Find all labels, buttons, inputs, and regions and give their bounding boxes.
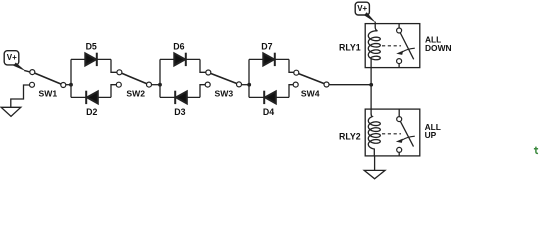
node junction at x=371.2 [369,83,373,87]
wire SW4 common to node [329,84,371,86]
wire RLY1 coil to RLY2 coil [370,68,372,115]
SW2 contacts [117,70,122,75]
wire SW2 common to node [152,84,161,86]
svg-text:V+: V+ [7,53,17,62]
svg-text:D5: D5 [86,42,97,52]
SW4 contacts [294,70,299,75]
svg-text:D2: D2 [86,107,97,117]
wire bridge at x=249 [249,59,296,97]
svg-text:D4: D4 [263,107,274,117]
ground (right) [364,170,385,178]
wire bridge at x=160 [160,59,207,97]
relay RLY1 contact [399,24,414,68]
svg-text:RLY1: RLY1 [339,43,361,53]
wire V+ stub to SW1 [24,70,30,72]
svg-text:SW2: SW2 [126,88,145,98]
svg-text:UP: UP [425,130,437,140]
diode D6 [174,53,185,65]
switch SW2 blade [119,72,149,84]
wire SW3 common to node [242,84,250,86]
node junction at x=249.2 [247,83,251,87]
switch SW3 blade [208,73,239,85]
RLY2 contact terminals [397,117,402,122]
diode D7 [263,53,274,65]
svg-text:V+: V+ [357,4,367,13]
diode D3 [176,91,187,103]
relay RLY2 box [365,109,420,156]
diode D5 [85,53,96,65]
svg-text:SW3: SW3 [214,88,233,98]
power V+ (right) [355,2,369,15]
relay RLY2 coil [368,114,380,156]
wire bridge at x=71 [71,59,118,97]
ground (left) [1,107,21,116]
wire SW1 lower contact to ground [11,85,30,107]
power V+ (left) [4,51,19,65]
relay RLY2 contact [399,109,413,156]
SW1 contacts [30,70,35,75]
svg-text:DOWN: DOWN [425,43,452,53]
svg-text:SW1: SW1 [38,88,57,98]
node junction at x=160 [158,83,162,87]
switch SW4 blade [296,73,326,85]
wire V+ stub to RLY1 coil [364,12,376,23]
relay RLY1 coil [368,22,380,68]
svg-text:D7: D7 [261,42,272,52]
diode D2 [87,91,98,103]
switch SW1 blade [32,72,63,85]
RLY1 contact terminals [397,28,402,33]
wire RLY2 coil to ground [374,156,376,170]
svg-text:SW4: SW4 [301,88,320,98]
svg-text:D6: D6 [173,42,184,52]
node junction at x=71 [69,83,73,87]
svg-text:RLY2: RLY2 [339,131,361,141]
watermark t [534,147,538,154]
SW3 contacts [206,70,211,75]
relay RLY1 box [365,24,420,68]
diode D4 [265,91,276,103]
wire SW1 common to node [66,84,71,86]
svg-text:D3: D3 [174,107,185,117]
